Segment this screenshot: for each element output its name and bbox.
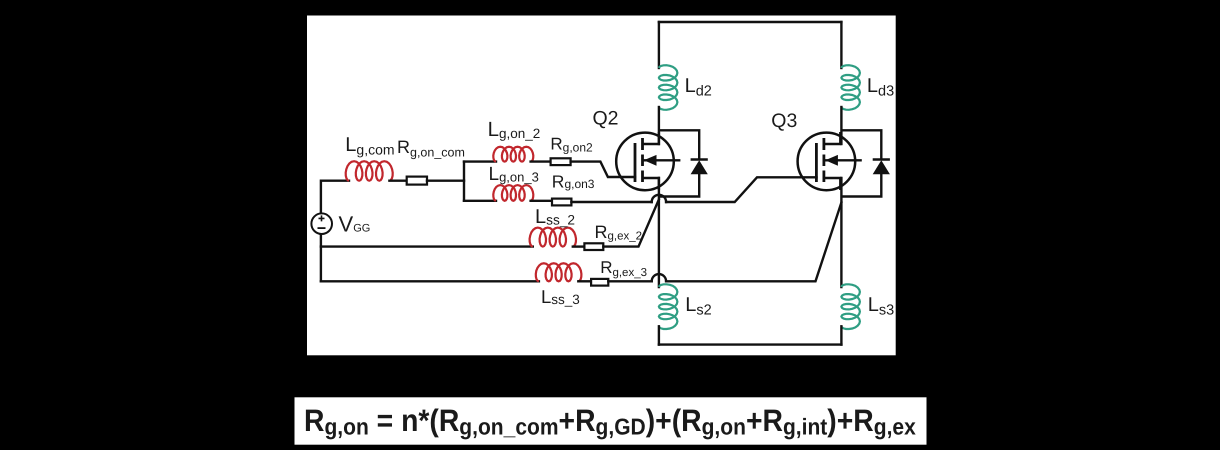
crossover hop at Q2 source line	[652, 195, 666, 202]
wire Lss_2 to Rg,ex_2	[573, 245, 585, 247]
inductor Ls2	[659, 284, 678, 329]
inductor Lg,com	[346, 161, 393, 181]
wire Rg,ex_2 diagonal to Q2 source node	[603, 200, 659, 247]
Q2 source stub	[643, 178, 659, 190]
Q2 drain stub	[643, 132, 659, 144]
inductor Ls3	[841, 284, 860, 329]
wire Rg,ex_3 to crossover	[608, 280, 651, 282]
wire Ld2 to Q2 drain	[658, 107, 660, 144]
wire Q2 source vertical down to Ls2	[658, 178, 660, 287]
wire Ld3 to Q3 drain	[840, 107, 842, 144]
wire Ls2 to bottom rail	[658, 326, 660, 344]
transistor Q2 body circle	[616, 133, 674, 191]
Q3 drain stub	[824, 132, 840, 144]
wire Rg,on2 to Q2 gate	[571, 162, 635, 177]
D3 body diode	[873, 158, 890, 161]
Q3 body line with arrow	[825, 159, 862, 161]
wire Lss_3 rail	[321, 280, 539, 282]
branch node vertical	[463, 162, 465, 201]
inductor Ld2	[659, 65, 678, 110]
wire top rail to Ld3	[840, 22, 842, 68]
resistor Rg,on3	[552, 199, 571, 206]
Q3 channel dashes	[823, 138, 826, 182]
Q2 gate bar	[634, 143, 637, 182]
svg-text:Q3: Q3	[771, 110, 797, 132]
resistor Rg,on_com	[407, 177, 427, 185]
circuit panel background	[307, 16, 896, 356]
wire Ls3 to bottom rail	[840, 326, 842, 344]
wire Rg,on3 toward Q2 source crossing	[571, 201, 651, 203]
wire from VGG top to Lg,com	[321, 181, 349, 214]
formula panel background	[295, 397, 927, 444]
Q3 gate bar	[815, 143, 818, 182]
wire Rg,on_com to branch node	[427, 179, 464, 181]
wire hop to Q3 gate diagonal	[666, 177, 816, 202]
wire Lg,on_3 to Rg,on3	[531, 200, 552, 202]
Q2 body line with arrow	[644, 159, 681, 161]
transistor Q3 body circle	[798, 133, 856, 191]
Q2 channel dashes	[641, 138, 644, 182]
resistor Rg,ex_2	[584, 243, 603, 250]
inductor Lss_2	[530, 228, 576, 247]
svg-text:Q2: Q2	[593, 108, 619, 130]
inductor Lss_3	[536, 263, 582, 281]
bottom rail wire	[659, 343, 842, 345]
wire VGG bottom vertical	[320, 234, 322, 281]
inductor Ld3	[841, 65, 860, 110]
formula Rg,on equation	[304, 403, 916, 440]
wire Q3 source vertical down to Ls3	[840, 178, 842, 287]
wire branch to Lg,on_3	[464, 200, 496, 202]
Q3 source stub	[824, 178, 840, 190]
inductor Lg,on_2	[493, 147, 533, 162]
wire Lss_2 rail	[321, 245, 533, 247]
crossover hop at Ls2 line	[652, 274, 666, 281]
wire Lg,on_2 to Rg,on2	[531, 160, 551, 162]
wire top rail to Ld2	[658, 22, 660, 68]
top rail wire	[659, 21, 842, 23]
wire branch to Lg,on_2	[464, 160, 496, 162]
D2 body-diode branch wire	[659, 130, 699, 196]
resistor Rg,ex_3	[591, 279, 608, 286]
resistor Rg,on2	[551, 158, 571, 165]
inductor Lg,on_3	[493, 185, 533, 201]
voltage source VGG	[311, 213, 332, 234]
D2 body diode	[691, 158, 708, 161]
wire hop to Q3 source diagonal	[666, 203, 841, 282]
D3 body-diode branch wire	[841, 130, 881, 196]
wire Lss_3 to Rg,ex_3	[578, 280, 591, 282]
wire Lg,com to Rg,on_com	[389, 179, 406, 181]
